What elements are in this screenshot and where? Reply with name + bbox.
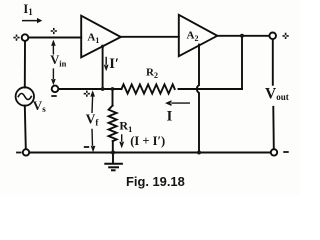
ground bar 1 xyxy=(104,163,123,165)
minus at bottom-right terminal xyxy=(283,151,288,153)
wire A2 output to output terminal xyxy=(217,35,269,37)
wire Vout upper segment xyxy=(272,39,274,85)
svg-text:A1: A1 xyxy=(87,31,99,45)
arrow (I+I') pointing down beside R1 bottom xyxy=(119,134,124,148)
plus at input terminal xyxy=(13,35,19,41)
arrow Vin upper segment with up head xyxy=(51,40,56,55)
source Vs circle xyxy=(16,87,34,105)
wire feedback vertical from A2 output down to R2 rail xyxy=(241,36,243,89)
resistor R2 zigzag xyxy=(122,84,175,93)
wire A1 output to A2 input xyxy=(121,36,179,38)
resistor R1 zigzag xyxy=(109,106,117,142)
arrow I' (short, pointing down) xyxy=(104,57,109,71)
svg-text:Vs: Vs xyxy=(33,98,46,114)
wire top-left from input terminal to A1 xyxy=(29,37,82,39)
wire R1 top lead xyxy=(112,89,114,106)
arrow I (pointing left, under R2) xyxy=(165,100,190,106)
junction A2 common at bottom rail xyxy=(197,151,201,155)
svg-text:Vout: Vout xyxy=(265,86,289,103)
terminal Vin bottom node xyxy=(52,86,59,93)
arrow Vf lower segment with down head xyxy=(91,129,96,153)
junction I' at middle rail xyxy=(101,87,105,91)
wire Vout lower segment xyxy=(272,107,275,149)
junction R1 bottom at bottom rail xyxy=(111,151,115,155)
svg-text:Vf: Vf xyxy=(86,111,100,127)
plus at Vin top node xyxy=(51,28,57,34)
terminal input top-left xyxy=(22,34,29,41)
arrow Vf upper segment with up head xyxy=(90,90,95,113)
arrow Vin lower segment with down head xyxy=(51,68,56,85)
wire middle rail left (Vin node to R1 node) xyxy=(58,88,121,90)
minus below Vin bottom node xyxy=(51,95,56,97)
wire bottom rail xyxy=(29,152,271,154)
wire left branch source top xyxy=(24,41,26,87)
minus at Vf bottom xyxy=(84,146,89,148)
wire R1 bottom lead xyxy=(112,141,114,153)
ground bar 2 xyxy=(108,166,119,168)
svg-text:Vin: Vin xyxy=(50,53,66,69)
wire A2 common leg down to bottom rail with hop over R2 rail xyxy=(197,45,199,153)
svg-text:I: I xyxy=(167,108,173,124)
terminal bottom-left xyxy=(23,149,29,155)
terminal output top-right xyxy=(269,33,276,40)
junction I' tap on hypotenuse xyxy=(101,45,104,48)
wire middle rail right (R2 to feedback drop) xyxy=(179,88,243,90)
plus at output terminal xyxy=(283,33,289,39)
svg-text:R1: R1 xyxy=(119,118,132,134)
svg-text:(I + I′): (I + I′) xyxy=(130,134,165,148)
minus at bottom-left terminal xyxy=(16,152,21,154)
svg-text:I′: I′ xyxy=(109,56,119,72)
arrow I1 (top-left, pointing right) xyxy=(22,18,42,23)
ground bar 3 xyxy=(111,169,116,171)
plus at Vf top xyxy=(84,91,90,97)
svg-text:I1: I1 xyxy=(23,2,33,17)
ground stem xyxy=(112,153,114,164)
svg-text:R2: R2 xyxy=(146,67,158,80)
source sine wave xyxy=(18,94,31,100)
op-amp A1 triangle xyxy=(81,16,121,58)
wire I' tap from A1 hypotenuse down to middle rail xyxy=(102,46,104,89)
op-amp A2 triangle xyxy=(179,15,218,56)
svg-text:Fig. 19.18: Fig. 19.18 xyxy=(126,174,185,189)
junction R1 top at middle rail xyxy=(111,87,115,91)
wire left branch source bottom xyxy=(25,106,26,150)
terminal bottom-right xyxy=(271,149,277,155)
junction feedback at output wire xyxy=(240,34,244,38)
svg-text:A2: A2 xyxy=(187,30,199,44)
